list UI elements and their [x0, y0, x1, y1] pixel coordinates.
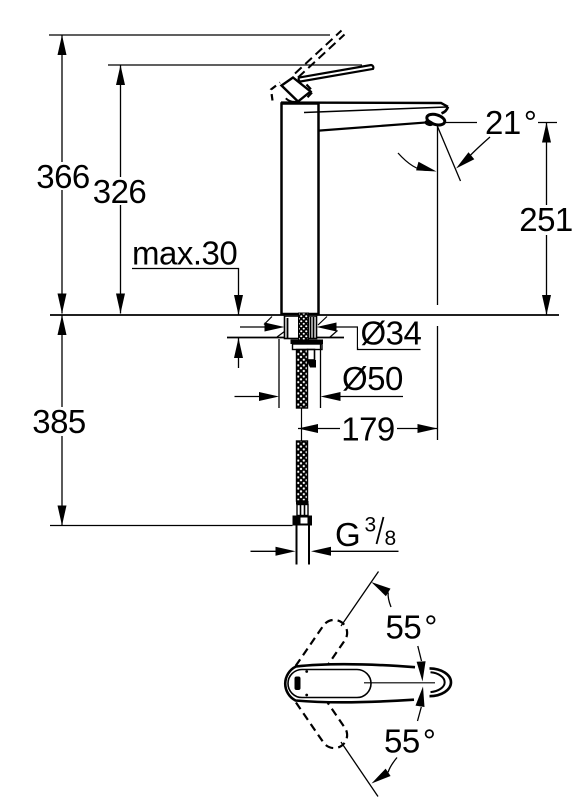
top view: cartridge knob — [430, 668, 452, 696]
deck hatch ticks — [264, 317, 338, 338]
spout mid facet edge — [304, 107, 447, 113]
svg-text:366: 366 — [36, 158, 90, 195]
top view: lever rotated down 55 (dashed) — [288, 677, 352, 754]
leader arc upper 55 to line — [371, 582, 391, 607]
svg-text:3: 3 — [365, 514, 377, 537]
leader arrow lower 55 to center line — [416, 687, 425, 722]
label G 3/8 — [335, 514, 396, 554]
svg-text:Ø34: Ø34 — [361, 315, 422, 352]
handle lever raised position (dashed) — [295, 31, 345, 78]
svg-text:55°: 55° — [384, 723, 435, 760]
top view: lever top face inner outline — [288, 670, 371, 698]
leader arrow upper 55 to center line — [417, 646, 426, 682]
svg-text:55°: 55° — [386, 609, 437, 646]
spout top edge — [281, 103, 448, 107]
extension line 326 top — [108, 64, 362, 66]
dimension 179 — [298, 411, 438, 448]
dimension 326 — [93, 65, 147, 314]
swivel arc with arrow — [398, 153, 437, 172]
hose nut G3-8 — [293, 516, 313, 526]
aerator — [424, 112, 446, 127]
top view: angle line upper 55 — [341, 572, 379, 627]
extension line 385 bottom — [50, 525, 293, 527]
svg-text:326: 326 — [93, 173, 147, 210]
top view: pivot dots — [305, 670, 308, 673]
top view: angle line lower 55 — [341, 742, 378, 797]
deck top line — [50, 314, 559, 316]
handle lever blade — [299, 65, 374, 82]
top view: center line — [364, 682, 435, 684]
extension line aerator height — [446, 122, 557, 124]
top view: solid lever outline — [285, 664, 415, 702]
dimension G3-8 arrows — [251, 547, 399, 556]
mounting bolt cone nut — [307, 360, 317, 368]
svg-text:Ø50: Ø50 — [342, 360, 403, 397]
dimension diameter 50 — [235, 360, 404, 401]
extension lines diameter 50 — [279, 339, 321, 408]
leader arrow 21 degrees — [456, 137, 490, 169]
shank flange washer — [291, 340, 324, 345]
threaded stud through deck — [299, 313, 309, 340]
leader arc lower 55 to line — [372, 758, 398, 784]
mounting shank in deck hole — [285, 316, 317, 339]
extension line 366 top — [49, 34, 330, 36]
mounting nut — [293, 344, 323, 350]
cartridge dome under boss — [286, 98, 300, 102]
svg-text:385: 385 — [32, 403, 86, 440]
hose connection tube — [297, 526, 310, 565]
flexible hose upper braid — [297, 350, 308, 409]
svg-text:21°: 21° — [485, 104, 536, 141]
spout angle line 21 — [438, 127, 461, 182]
dimension 251 — [519, 123, 574, 316]
dimension diameter 34 — [240, 315, 422, 352]
flexible hose lower braid — [297, 441, 308, 501]
top view: indicator mark — [295, 677, 301, 691]
handle boss — [282, 78, 311, 102]
spout underside edge — [319, 121, 442, 130]
mounting bolt rod — [308, 350, 315, 361]
dimension 385 — [31, 315, 87, 526]
aerator vertical extension line — [437, 124, 439, 440]
top view: lever rotated up 55 (dashed) — [288, 615, 352, 692]
handle boss alternate position right edge (dashed) — [307, 85, 314, 98]
handle boss alternate position (dashed) — [271, 83, 280, 101]
hose break center line — [301, 408, 303, 441]
svg-text:G: G — [335, 516, 360, 553]
svg-text:179: 179 — [341, 411, 395, 448]
dimension 366 — [36, 35, 90, 314]
svg-text:max.30: max.30 — [132, 235, 237, 272]
hose ferrule — [296, 501, 309, 516]
label max.30 — [132, 235, 243, 369]
svg-text:8: 8 — [385, 527, 397, 550]
svg-text:251: 251 — [519, 201, 573, 238]
deck bottom line — [227, 337, 344, 339]
faucet body column — [282, 104, 319, 315]
spout tip chamfer — [442, 107, 449, 114]
